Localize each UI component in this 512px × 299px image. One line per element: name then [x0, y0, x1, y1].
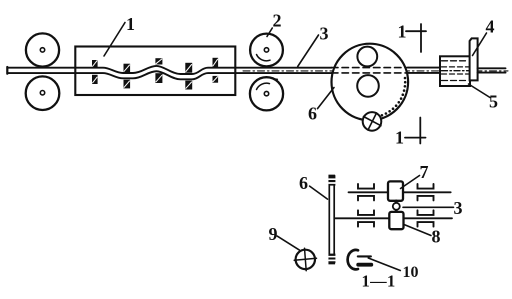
label 1 leader — [104, 23, 125, 57]
wire left end cap — [6, 67, 8, 74]
roller pair 2: bottom roller — [250, 77, 283, 110]
clamp block pair 1 — [92, 60, 98, 84]
disc edge-on bar — [329, 176, 334, 264]
clamp block pair 5 — [213, 58, 219, 83]
label 5 leader — [469, 84, 491, 98]
svg-text:1—1: 1—1 — [362, 272, 396, 291]
guide clamp lower-left — [358, 210, 374, 226]
motor 9 crossed circle — [296, 250, 315, 269]
guide clamp lower-right — [418, 210, 434, 226]
feed box 7 — [388, 181, 403, 200]
connecting necks — [395, 201, 398, 212]
label 6 leader (top view) — [318, 88, 335, 109]
svg-text:3: 3 — [320, 24, 329, 44]
label 6 leader (bottom view) — [310, 186, 328, 199]
cutter blade 4 — [470, 38, 478, 80]
clamp 10 — [348, 250, 358, 269]
svg-text:6: 6 — [299, 173, 308, 193]
label 7 leader — [401, 176, 420, 189]
wire hidden lines through disc — [332, 67, 409, 69]
svg-text:1: 1 — [126, 14, 135, 34]
label 8 leader — [404, 225, 431, 236]
svg-text:1: 1 — [398, 22, 407, 42]
label 3 leader (top) — [298, 35, 319, 67]
wire bottom line — [8, 71, 332, 79]
lower rail — [335, 217, 452, 219]
clamp block pair 2 — [124, 64, 131, 89]
disc middle hole — [357, 75, 379, 97]
label 4 leader — [473, 33, 487, 56]
svg-text:1: 1 — [395, 128, 404, 148]
roller pair left: top roller — [26, 33, 59, 66]
corrugating box frame — [75, 47, 235, 96]
crossed roller at disc bottom — [363, 112, 382, 131]
die block — [440, 56, 470, 86]
wire axis dash-dot centerline — [243, 70, 508, 72]
svg-text:10: 10 — [403, 264, 419, 281]
bar top cap — [329, 175, 336, 185]
section mark bottom — [405, 137, 426, 139]
dotted arc on disc — [377, 77, 407, 118]
guide clamp upper-right — [418, 184, 434, 200]
svg-text:6: 6 — [308, 104, 317, 124]
svg-text:7: 7 — [420, 162, 429, 182]
upper rail — [349, 191, 451, 193]
clamp block pair 3 — [155, 58, 162, 83]
roller pair left: bottom roller — [26, 76, 60, 110]
label 9 leader — [277, 236, 299, 250]
wire right stub — [478, 67, 506, 69]
roller pair 2: top roller — [250, 34, 283, 67]
guide clamp upper-left — [358, 184, 374, 200]
svg-text:5: 5 — [489, 92, 498, 112]
roller 3 (small circle) — [393, 203, 400, 210]
wire top line — [8, 66, 332, 74]
section mark top — [406, 30, 426, 32]
svg-text:3: 3 — [454, 198, 463, 218]
clamp block pair 4 — [185, 63, 192, 90]
svg-text:4: 4 — [486, 17, 495, 37]
bar bottom cap — [329, 254, 336, 264]
svg-text:2: 2 — [273, 11, 282, 31]
svg-text:8: 8 — [432, 227, 441, 247]
label 10 leader — [368, 258, 400, 271]
feed box 8 — [389, 212, 403, 229]
svg-text:9: 9 — [269, 224, 278, 244]
disc 6 — [332, 44, 409, 121]
label 2 leader — [267, 28, 272, 37]
label 3 leader (bottom) — [403, 206, 454, 208]
disc top hole — [357, 47, 377, 67]
clamp hatch highlights — [93, 59, 218, 88]
